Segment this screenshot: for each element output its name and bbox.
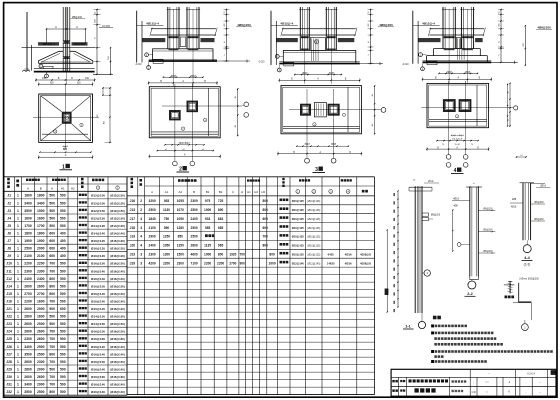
- svg-text:J25: J25: [6, 337, 12, 341]
- svg-text:600: 600: [49, 254, 55, 258]
- svg-text:800: 800: [263, 208, 269, 212]
- svg-text:1135: 1135: [204, 244, 211, 248]
- svg-text:B|B: B|B: [63, 149, 67, 151]
- svg-text:500: 500: [60, 367, 66, 371]
- svg-text:2: 2: [140, 199, 142, 203]
- svg-text:1: 1: [17, 247, 19, 251]
- svg-text:4600: 4600: [191, 253, 198, 257]
- svg-text:(Ø16@150): (Ø16@150): [110, 360, 125, 364]
- svg-text:(Ø16@140): (Ø16@140): [110, 390, 125, 394]
- svg-text:(Ø10@125): (Ø10@125): [307, 236, 320, 239]
- svg-text:700: 700: [49, 345, 55, 349]
- svg-text:d|a|d: d|a|d: [465, 72, 471, 74]
- svg-text:(Ø16@120): (Ø16@120): [110, 254, 125, 258]
- svg-text:-0.020: -0.020: [258, 61, 265, 63]
- svg-text:Ø16@120: Ø16@120: [91, 247, 105, 251]
- svg-text:(Ø12@150): (Ø12@150): [110, 194, 125, 198]
- svg-text:Ø16@120: Ø16@120: [91, 254, 105, 258]
- svg-text:H3: H3: [261, 190, 265, 194]
- svg-text:J8: J8: [7, 247, 11, 251]
- svg-text:1: 1: [17, 337, 19, 341]
- svg-text:1600: 1600: [37, 300, 45, 304]
- svg-text:500: 500: [60, 284, 66, 288]
- svg-text:J19: J19: [130, 235, 136, 239]
- svg-text:2000: 2000: [37, 367, 45, 371]
- svg-text:2700: 2700: [24, 292, 32, 296]
- svg-text:(Ø16@140): (Ø16@140): [110, 300, 125, 304]
- svg-text:Ø16@150: Ø16@150: [91, 284, 105, 288]
- svg-text:850: 850: [178, 235, 184, 239]
- svg-text:2900: 2900: [149, 235, 156, 239]
- svg-text:1: 1: [17, 232, 19, 236]
- svg-text:J24: J24: [6, 330, 12, 334]
- svg-text:800: 800: [218, 253, 224, 257]
- svg-text:800: 800: [49, 352, 55, 356]
- svg-text:800: 800: [49, 292, 55, 296]
- svg-text:--: --: [488, 372, 490, 375]
- svg-text:2600: 2600: [24, 375, 32, 379]
- svg-text:3500: 3500: [24, 352, 32, 356]
- svg-text:1000: 1000: [204, 253, 211, 257]
- svg-text:2-Ømm Ø16@200: 2-Ømm Ø16@200: [519, 278, 539, 281]
- svg-text:2100: 2100: [24, 254, 32, 258]
- svg-text:(Ø16@150): (Ø16@150): [110, 330, 125, 334]
- svg-text:1700: 1700: [24, 224, 32, 228]
- svg-text:1300: 1300: [163, 253, 170, 257]
- svg-text:663: 663: [218, 217, 224, 221]
- svg-text:H2: H2: [254, 190, 258, 194]
- svg-text:985: 985: [205, 226, 211, 230]
- svg-text:2900: 2900: [37, 383, 45, 387]
- svg-text:1840: 1840: [149, 217, 156, 221]
- svg-text:4: 4: [140, 244, 142, 248]
- svg-text:h: h: [224, 54, 226, 55]
- svg-text:2600: 2600: [24, 330, 32, 334]
- svg-text:A: A: [151, 190, 153, 194]
- svg-text:500: 500: [60, 390, 66, 394]
- svg-text:Ø12@140: Ø12@140: [292, 261, 305, 265]
- svg-text:h: h: [499, 54, 501, 55]
- svg-text:1: 1: [17, 383, 19, 387]
- svg-text:1: 1: [17, 262, 19, 266]
- svg-text:Ø16@160: Ø16@160: [91, 337, 105, 341]
- svg-text:2300: 2300: [191, 199, 198, 203]
- svg-text:150: 150: [42, 77, 47, 80]
- svg-text:935: 935: [164, 199, 170, 203]
- svg-text:1: 1: [17, 292, 19, 296]
- svg-text:Ø8@200: Ø8@200: [534, 219, 544, 221]
- svg-text:1700: 1700: [37, 224, 45, 228]
- svg-text:Ø12@150: Ø12@150: [91, 201, 105, 205]
- svg-text:A: A: [55, 25, 57, 29]
- svg-text:J23: J23: [130, 253, 136, 257]
- svg-text:2500: 2500: [191, 226, 198, 230]
- svg-text:890: 890: [218, 208, 224, 212]
- svg-text:4Ø8@200: 4Ø8@200: [237, 23, 251, 27]
- svg-text:500: 500: [60, 209, 66, 213]
- svg-text:2000: 2000: [37, 247, 45, 251]
- svg-text:3200: 3200: [149, 199, 156, 203]
- svg-text:Ø14@150: Ø14@150: [91, 315, 105, 319]
- svg-text:2600: 2600: [37, 375, 45, 379]
- svg-text:2300: 2300: [37, 269, 45, 273]
- svg-text:500: 500: [49, 224, 55, 228]
- svg-text:2800: 2800: [24, 367, 32, 371]
- svg-text:1800: 1800: [24, 232, 32, 236]
- svg-text:400: 400: [60, 232, 66, 236]
- svg-text:d|a|d: d|a|d: [302, 73, 308, 75]
- svg-text:Ø16@150: Ø16@150: [91, 330, 105, 334]
- svg-text:3400: 3400: [24, 345, 32, 349]
- svg-text:1: 1: [17, 375, 19, 379]
- svg-text:(Ø16@140): (Ø16@140): [110, 292, 125, 296]
- svg-text:500: 500: [60, 330, 66, 334]
- svg-text:2600: 2600: [24, 360, 32, 364]
- svg-text:2800: 2800: [24, 315, 32, 319]
- svg-text:(Ø16@140): (Ø16@140): [110, 269, 125, 273]
- svg-text:800: 800: [263, 244, 269, 248]
- svg-text:(Ø10@125): (Ø10@125): [307, 200, 320, 203]
- svg-text:1:30: 1:30: [471, 392, 476, 394]
- svg-text:(Ø16@140): (Ø16@140): [110, 345, 125, 349]
- svg-text:1350: 1350: [177, 244, 184, 248]
- svg-text:2000: 2000: [37, 322, 45, 326]
- svg-text:Ø16@120: Ø16@120: [91, 239, 105, 243]
- svg-text:2300: 2300: [24, 269, 32, 273]
- svg-text:4Ø12@-4: 4Ø12@-4: [42, 42, 55, 46]
- svg-text:-0.020: -0.020: [402, 64, 409, 66]
- svg-text:±0.000: ±0.000: [102, 24, 110, 28]
- svg-text:3400: 3400: [37, 201, 45, 205]
- svg-text:Ø12@150: Ø12@150: [91, 216, 105, 220]
- svg-text:H1: H1: [61, 186, 65, 190]
- svg-text:1800: 1800: [37, 194, 45, 198]
- svg-text:2500: 2500: [37, 390, 45, 394]
- svg-text:3400: 3400: [24, 201, 32, 205]
- svg-text:4Ø8@200: 4Ø8@200: [379, 23, 393, 27]
- svg-text:J14: J14: [6, 284, 12, 288]
- svg-text:965: 965: [218, 244, 224, 248]
- svg-text:1: 1: [17, 307, 19, 311]
- svg-text:(Ø12@140): (Ø12@140): [307, 262, 320, 265]
- svg-text:Ø16@140: Ø16@140: [91, 383, 105, 387]
- svg-text:J29: J29: [6, 367, 12, 371]
- svg-text:1920: 1920: [229, 253, 236, 257]
- svg-text:900: 900: [49, 307, 55, 311]
- svg-text:1: 1: [17, 315, 19, 319]
- svg-text:2200: 2200: [163, 261, 170, 265]
- svg-text:(Ø16@160): (Ø16@160): [110, 337, 125, 341]
- svg-text:(Ø10@125): (Ø10@125): [307, 245, 320, 248]
- svg-text:V.2-0.4: V.2-0.4: [527, 372, 535, 375]
- svg-text:400: 400: [60, 254, 66, 258]
- svg-text:1: 1: [17, 277, 19, 281]
- svg-text:1: 1: [17, 330, 19, 334]
- svg-text:1: 1: [17, 352, 19, 356]
- svg-text:Ø8@200: Ø8@200: [72, 16, 83, 19]
- svg-text:500: 500: [60, 360, 66, 364]
- svg-text:590: 590: [164, 226, 170, 230]
- svg-text:J16: J16: [6, 300, 12, 304]
- svg-text:H1: H1: [247, 190, 251, 194]
- svg-text:Ø16@140: Ø16@140: [91, 367, 105, 371]
- svg-text:500: 500: [60, 224, 66, 228]
- svg-text:J9: J9: [7, 254, 11, 258]
- svg-text:B: B: [193, 190, 195, 194]
- svg-text:J26: J26: [6, 345, 12, 349]
- svg-text:J11: J11: [6, 269, 12, 273]
- svg-text:B1: B1: [206, 190, 210, 194]
- svg-text:2200: 2200: [24, 300, 32, 304]
- svg-text:J16: J16: [130, 199, 136, 203]
- svg-text:500: 500: [60, 352, 66, 356]
- svg-text:700: 700: [49, 360, 55, 364]
- svg-text:2100: 2100: [37, 254, 45, 258]
- svg-text:1000: 1000: [269, 261, 276, 265]
- svg-text:500: 500: [49, 194, 55, 198]
- svg-text:800: 800: [269, 253, 275, 257]
- svg-text:J22: J22: [6, 315, 12, 319]
- svg-text:4Ø18: 4Ø18: [511, 207, 517, 209]
- svg-text:d|a|d d|a|d: d|a|d d|a|d: [179, 143, 190, 145]
- svg-text:600: 600: [60, 307, 66, 311]
- svg-text:500: 500: [60, 322, 66, 326]
- svg-text:2Ø16: 2Ø16: [540, 185, 547, 188]
- svg-text:(Ø12@150): (Ø12@150): [110, 209, 125, 213]
- svg-text:(Ø16@150): (Ø16@150): [110, 284, 125, 288]
- svg-text:2300: 2300: [177, 261, 184, 265]
- svg-text:(Ø16@160): (Ø16@160): [110, 375, 125, 379]
- svg-text:A: A: [27, 186, 29, 190]
- svg-text:H: H: [241, 190, 243, 194]
- svg-text:J27: J27: [6, 352, 12, 356]
- svg-text:J3: J3: [7, 209, 11, 213]
- svg-text:Ø10@125: Ø10@125: [292, 226, 305, 230]
- svg-text:1800: 1800: [37, 232, 45, 236]
- svg-text:J29: J29: [130, 261, 136, 265]
- svg-text:500: 500: [60, 345, 66, 349]
- svg-text:2600: 2600: [24, 284, 32, 288]
- svg-text:1: 1: [17, 284, 19, 288]
- svg-text:1600: 1600: [24, 216, 32, 220]
- svg-text:(Ø10@125): (Ø10@125): [307, 254, 320, 257]
- svg-text:1: 1: [17, 322, 19, 326]
- svg-text:J17: J17: [130, 217, 136, 221]
- svg-text:4Ø16: 4Ø16: [345, 261, 352, 265]
- svg-text:150: 150: [85, 77, 90, 80]
- svg-text:700: 700: [49, 383, 55, 387]
- svg-text:Ø16@140: Ø16@140: [91, 345, 105, 349]
- svg-text:2700: 2700: [229, 261, 236, 265]
- svg-text:Ø16@140: Ø16@140: [91, 300, 105, 304]
- svg-text:500: 500: [49, 367, 55, 371]
- svg-text:500: 500: [60, 216, 66, 220]
- svg-text:J18: J18: [130, 226, 136, 230]
- svg-text:J32: J32: [6, 390, 12, 394]
- svg-text:2200: 2200: [24, 262, 32, 266]
- svg-text:2900: 2900: [37, 345, 45, 349]
- svg-text:Ø14@150: Ø14@150: [91, 322, 105, 326]
- svg-text:2-2: 2-2: [467, 292, 473, 296]
- svg-text:--: --: [539, 381, 541, 384]
- svg-text:J5: J5: [7, 224, 11, 228]
- svg-text:(Ø10@125): (Ø10@125): [307, 218, 320, 221]
- svg-text:3400: 3400: [24, 383, 32, 387]
- svg-text:2500: 2500: [149, 208, 156, 212]
- svg-text:1: 1: [17, 254, 19, 258]
- svg-text:700: 700: [240, 253, 246, 257]
- svg-text:3: 3: [140, 261, 142, 265]
- svg-text:500: 500: [49, 322, 55, 326]
- svg-text:(Ø16@140): (Ø16@140): [110, 383, 125, 387]
- svg-text:Ø10@125: Ø10@125: [292, 208, 305, 212]
- svg-text:1900: 1900: [24, 239, 32, 243]
- svg-text:700: 700: [49, 337, 55, 341]
- svg-text:500: 500: [60, 315, 66, 319]
- svg-text:500: 500: [60, 337, 66, 341]
- svg-text:4: 4: [140, 226, 142, 230]
- svg-text:500: 500: [60, 201, 66, 205]
- svg-text:1800: 1800: [24, 194, 32, 198]
- svg-text:1500: 1500: [177, 253, 184, 257]
- svg-text:2100: 2100: [149, 226, 156, 230]
- svg-text:14625: 14625: [327, 261, 335, 265]
- svg-text:2400: 2400: [37, 277, 45, 281]
- svg-text:2600: 2600: [24, 322, 32, 326]
- svg-text:H2: H2: [71, 186, 75, 190]
- svg-text:4Ø28@25: 4Ø28@25: [360, 262, 372, 265]
- svg-text:2400: 2400: [24, 277, 32, 281]
- svg-text:2600: 2600: [24, 307, 32, 311]
- svg-text:B: B: [40, 186, 42, 190]
- svg-text:(Ø12@150): (Ø12@150): [110, 216, 125, 220]
- svg-text:6425: 6425: [328, 253, 335, 257]
- svg-text:1: 1: [17, 269, 19, 273]
- svg-text:Ø12@150: Ø12@150: [91, 209, 105, 213]
- svg-text:2300: 2300: [37, 360, 45, 364]
- svg-text:1: 1: [17, 360, 19, 364]
- svg-text:700: 700: [49, 262, 55, 266]
- svg-text:2200: 2200: [37, 262, 45, 266]
- svg-text:Ø10@125: Ø10@125: [292, 244, 305, 248]
- svg-text:d|a|d: d|a|d: [190, 75, 196, 77]
- svg-text:H: H: [51, 186, 53, 190]
- svg-text:2400: 2400: [149, 244, 156, 248]
- svg-text:(Ø14@140): (Ø14@140): [110, 232, 125, 236]
- svg-text:d|a|d: d|a|d: [447, 72, 453, 74]
- svg-text:1600: 1600: [37, 315, 45, 319]
- svg-text:4Ø8: 4Ø8: [453, 206, 458, 208]
- svg-text:800: 800: [49, 390, 55, 394]
- svg-text:975: 975: [205, 199, 211, 203]
- svg-text:-0.020: -0.020: [135, 64, 142, 66]
- svg-text:4Ø16: 4Ø16: [345, 253, 352, 257]
- svg-text:700: 700: [49, 269, 55, 273]
- svg-text:2200: 2200: [204, 261, 211, 265]
- svg-text:(Ø16@120): (Ø16@120): [110, 247, 125, 251]
- svg-text:Ømm: Ømm: [428, 180, 434, 183]
- svg-text:Ø12@150: Ø12@150: [91, 194, 105, 198]
- svg-text:1070: 1070: [177, 208, 184, 212]
- svg-text:800: 800: [49, 277, 55, 281]
- svg-text:Ø10@125: Ø10@125: [292, 199, 305, 203]
- svg-text:1130: 1130: [163, 208, 170, 212]
- svg-text:985: 985: [218, 226, 224, 230]
- svg-text:2600: 2600: [37, 330, 45, 334]
- svg-text:500: 500: [49, 216, 55, 220]
- svg-text:d|a|d a d|a|d: d|a|d a d|a|d: [451, 135, 464, 137]
- svg-text:Ø16@150: Ø16@150: [91, 262, 105, 266]
- svg-text:1-1: 1-1: [405, 325, 411, 329]
- svg-text:4Ø8@200: 4Ø8@200: [537, 26, 551, 30]
- svg-text:Ø16@140: Ø16@140: [91, 307, 105, 311]
- svg-text:2500: 2500: [191, 208, 198, 212]
- svg-text:2600: 2600: [37, 337, 45, 341]
- svg-text:1: 1: [17, 345, 19, 349]
- svg-text:7100: 7100: [191, 261, 198, 265]
- svg-text:3: 3: [140, 253, 142, 257]
- svg-text:700: 700: [263, 235, 269, 239]
- svg-text:3500: 3500: [24, 209, 32, 213]
- svg-text:1: 1: [17, 300, 19, 304]
- svg-text:500: 500: [60, 277, 66, 281]
- svg-text:900: 900: [240, 261, 246, 265]
- svg-text:500: 500: [60, 269, 66, 273]
- svg-text:J4: J4: [7, 216, 11, 220]
- svg-text:3500: 3500: [24, 390, 32, 394]
- svg-text:Ø14@140: Ø14@140: [91, 232, 105, 236]
- svg-text:4200: 4200: [149, 261, 156, 265]
- svg-text:725: 725: [218, 199, 224, 203]
- svg-text:(Ø16@140): (Ø16@140): [110, 307, 125, 311]
- svg-text:Ø14@130: Ø14@130: [91, 224, 105, 228]
- svg-text:J15: J15: [6, 292, 12, 296]
- svg-text:d|a|d: d|a|d: [329, 73, 335, 75]
- svg-text:1000: 1000: [204, 208, 211, 212]
- svg-text:2: 2: [140, 208, 142, 212]
- svg-text:1: 1: [17, 367, 19, 371]
- svg-text:2500: 2500: [191, 235, 198, 239]
- svg-text:J30: J30: [6, 375, 12, 379]
- svg-text:Ø8@200: Ø8@200: [74, 42, 86, 46]
- svg-text:600: 600: [263, 217, 269, 221]
- svg-text:J23: J23: [6, 322, 12, 326]
- svg-text:1050: 1050: [177, 217, 184, 221]
- svg-text:J6: J6: [7, 232, 11, 236]
- svg-text:500: 500: [60, 194, 66, 198]
- svg-text:Ø16@140: Ø16@140: [91, 390, 105, 394]
- svg-text:2300: 2300: [24, 337, 32, 341]
- svg-text:2020: 2020: [24, 68, 30, 71]
- svg-text:400: 400: [60, 247, 66, 251]
- svg-text:A2: A2: [179, 190, 183, 194]
- svg-text:500: 500: [49, 209, 55, 213]
- svg-text:J31: J31: [6, 383, 12, 387]
- svg-text:(3-3): (3-3): [524, 263, 531, 267]
- svg-text:1: 1: [17, 194, 19, 198]
- svg-text:(Ø14@150): (Ø14@150): [110, 322, 125, 326]
- svg-text:4Ø18: 4Ø18: [453, 198, 460, 201]
- svg-text:1055: 1055: [177, 199, 184, 203]
- svg-text:4Ø28@25: 4Ø28@25: [360, 254, 372, 257]
- svg-text:1900: 1900: [37, 239, 45, 243]
- svg-text:Ø8@200: Ø8@200: [534, 202, 544, 204]
- svg-text:1250: 1250: [163, 235, 170, 239]
- svg-text:1: 1: [17, 201, 19, 205]
- svg-text:400: 400: [60, 239, 66, 243]
- svg-text:Ø16@160: Ø16@160: [91, 375, 105, 379]
- svg-text:1050: 1050: [163, 244, 170, 248]
